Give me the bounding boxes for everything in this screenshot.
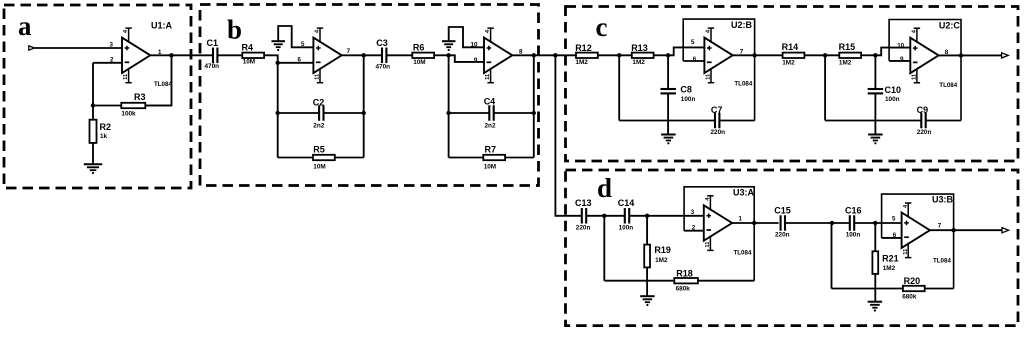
svg-text:C7: C7 (711, 105, 723, 115)
svg-text:TL084: TL084 (734, 81, 752, 88)
svg-text:C14: C14 (618, 198, 635, 208)
svg-text:R2: R2 (100, 122, 112, 132)
svg-text:3: 3 (110, 41, 114, 48)
svg-text:R20: R20 (904, 276, 921, 286)
svg-text:R12: R12 (575, 43, 592, 53)
svg-text:11: 11 (315, 73, 321, 80)
svg-text:U3:B: U3:B (932, 195, 954, 205)
svg-text:10M: 10M (243, 59, 255, 66)
svg-text:100n: 100n (885, 96, 900, 103)
svg-text:C2: C2 (313, 97, 325, 107)
svg-text:2n2: 2n2 (485, 123, 496, 130)
svg-text:a: a (18, 11, 32, 41)
svg-text:9: 9 (900, 56, 904, 63)
svg-text:U1:A: U1:A (151, 20, 173, 30)
svg-text:11: 11 (706, 73, 712, 80)
svg-text:TL084: TL084 (154, 81, 172, 88)
svg-text:c: c (596, 12, 608, 42)
svg-text:C15: C15 (774, 206, 791, 216)
svg-text:C4: C4 (484, 96, 496, 106)
svg-text:220n: 220n (576, 225, 591, 232)
svg-text:R6: R6 (413, 43, 425, 53)
svg-text:7: 7 (938, 223, 942, 230)
svg-text:R13: R13 (631, 43, 648, 53)
svg-text:9: 9 (474, 57, 478, 64)
svg-text:2n2: 2n2 (313, 123, 324, 130)
svg-text:R21: R21 (882, 253, 899, 263)
svg-text:11: 11 (485, 73, 491, 80)
svg-text:11: 11 (123, 73, 129, 80)
svg-text:b: b (227, 15, 242, 45)
svg-text:680k: 680k (902, 293, 917, 300)
svg-text:100k: 100k (121, 110, 136, 117)
svg-text:10M: 10M (484, 163, 496, 170)
svg-text:5: 5 (301, 41, 305, 48)
svg-text:11: 11 (903, 248, 909, 255)
svg-text:R7: R7 (485, 144, 497, 154)
svg-text:10M: 10M (413, 59, 425, 66)
svg-text:7: 7 (347, 48, 351, 55)
svg-text:R14: R14 (782, 42, 799, 52)
svg-text:10: 10 (897, 43, 904, 50)
svg-text:5: 5 (892, 216, 896, 223)
svg-text:6: 6 (693, 56, 697, 63)
svg-text:10: 10 (471, 42, 478, 49)
svg-text:TL084: TL084 (933, 258, 951, 265)
svg-text:100n: 100n (619, 225, 634, 232)
svg-text:R3: R3 (134, 92, 146, 102)
svg-text:U2:C: U2:C (939, 20, 961, 30)
svg-text:TL084: TL084 (939, 82, 957, 89)
svg-text:220n: 220n (775, 232, 790, 239)
svg-text:1k: 1k (100, 133, 108, 140)
svg-text:1M2: 1M2 (655, 257, 668, 264)
svg-text:R15: R15 (839, 42, 856, 52)
svg-text:R5: R5 (313, 144, 325, 154)
svg-text:470n: 470n (376, 64, 391, 71)
svg-text:10M: 10M (313, 164, 325, 171)
svg-text:6: 6 (893, 232, 897, 239)
svg-text:C9: C9 (917, 105, 929, 115)
svg-text:1M2: 1M2 (839, 60, 852, 67)
svg-text:C8: C8 (680, 84, 692, 94)
svg-text:5: 5 (691, 39, 695, 46)
svg-text:R18: R18 (676, 268, 693, 278)
svg-text:11: 11 (912, 73, 918, 80)
svg-text:C13: C13 (575, 198, 592, 208)
svg-text:3: 3 (691, 209, 695, 216)
svg-text:100n: 100n (681, 96, 696, 103)
svg-text:1M2: 1M2 (883, 265, 896, 272)
svg-text:220n: 220n (917, 129, 932, 136)
svg-text:U2:B: U2:B (731, 20, 753, 30)
svg-text:1M2: 1M2 (782, 60, 795, 67)
svg-text:C3: C3 (376, 38, 388, 48)
svg-text:220n: 220n (711, 129, 726, 136)
svg-text:6: 6 (298, 57, 302, 64)
svg-text:2: 2 (110, 56, 114, 63)
svg-text:C16: C16 (845, 206, 862, 216)
svg-text:d: d (597, 173, 612, 203)
svg-text:1M2: 1M2 (632, 59, 645, 66)
svg-text:100n: 100n (846, 232, 861, 239)
svg-text:11: 11 (705, 241, 711, 248)
svg-text:8: 8 (519, 48, 523, 55)
svg-text:R19: R19 (654, 245, 671, 255)
svg-text:1M2: 1M2 (575, 59, 588, 66)
svg-text:470n: 470n (205, 63, 220, 70)
svg-text:C1: C1 (207, 38, 219, 48)
svg-text:1: 1 (739, 216, 743, 223)
svg-text:TL084: TL084 (734, 249, 752, 256)
svg-text:680k: 680k (676, 286, 691, 293)
svg-text:2: 2 (692, 224, 696, 231)
svg-text:U3:A: U3:A (733, 188, 755, 198)
svg-text:C10: C10 (885, 85, 902, 95)
svg-text:R4: R4 (242, 42, 254, 52)
